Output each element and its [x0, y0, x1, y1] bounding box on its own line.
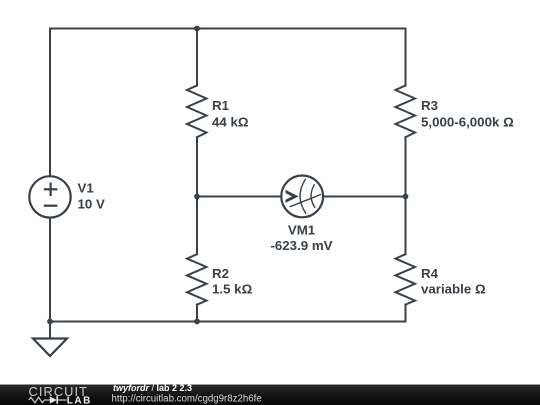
resistor R2 — [187, 254, 207, 304]
resistor R4 — [396, 254, 416, 304]
svg-text:5,000-6,000k Ω: 5,000-6,000k Ω — [421, 115, 514, 130]
svg-text:1.5 kΩ: 1.5 kΩ — [212, 281, 253, 296]
voltmeter VM1 — [281, 176, 323, 218]
wire middle branch between node and R2 — [196, 197, 198, 255]
resistor R1 — [187, 86, 207, 138]
svg-text:http://circuitlab.com/cgdg9r8z: http://circuitlab.com/cgdg9r8z2h6fe — [112, 394, 262, 405]
wire voltmeter left — [197, 196, 281, 198]
CircuitLab logo wordmark LAB — [67, 395, 92, 405]
svg-text:R2: R2 — [212, 266, 229, 281]
wire right branch lower lead — [405, 305, 407, 322]
svg-text:10 V: 10 V — [78, 197, 105, 212]
wire middle branch between R1 and node — [196, 137, 198, 196]
wire right branch between R3 and node — [405, 137, 407, 196]
wire bottom horizontal — [50, 321, 406, 323]
footer url text — [112, 394, 262, 405]
svg-text:R3: R3 — [421, 98, 438, 113]
node junction right (R3/R4/VM) — [403, 194, 409, 200]
svg-text:LAB: LAB — [67, 395, 92, 405]
ground — [33, 339, 67, 357]
CircuitLab logo wordmark CIRCUIT — [29, 384, 89, 399]
svg-text:44 kΩ: 44 kΩ — [212, 115, 249, 130]
CircuitLab logo resistor zigzag — [29, 397, 50, 402]
wire middle branch upper lead — [196, 29, 198, 86]
node junction top middle — [194, 26, 200, 32]
footer bar — [0, 385, 540, 405]
CircuitLab logo diode — [50, 396, 57, 403]
footer title text — [113, 383, 192, 393]
wire voltmeter right — [323, 196, 405, 198]
wire top horizontal — [50, 28, 406, 30]
wire ground stub — [49, 322, 51, 339]
node junction bottom middle — [194, 319, 200, 325]
svg-text:VM1: VM1 — [288, 222, 316, 237]
svg-text:variable Ω: variable Ω — [421, 281, 486, 296]
resistor R3 — [396, 86, 416, 138]
svg-text:R1: R1 — [212, 98, 230, 113]
node junction middle (R1/R2/VM) — [194, 194, 200, 200]
svg-text:twyfordr / lab 2 2.3: twyfordr / lab 2 2.3 — [113, 383, 192, 393]
wire left vertical (bottom of V1) — [49, 218, 51, 322]
wire left vertical (top of V1) — [49, 29, 51, 177]
wire right branch between node and R4 — [405, 197, 407, 255]
svg-text:V1: V1 — [78, 181, 95, 196]
voltage source V1 — [29, 176, 70, 217]
node junction bottom left (ground) — [47, 319, 53, 325]
wire right branch upper lead — [405, 29, 407, 86]
svg-text:-623.9 mV: -623.9 mV — [270, 238, 332, 253]
svg-text:R4: R4 — [421, 266, 439, 281]
wire middle branch lower lead — [196, 305, 198, 322]
